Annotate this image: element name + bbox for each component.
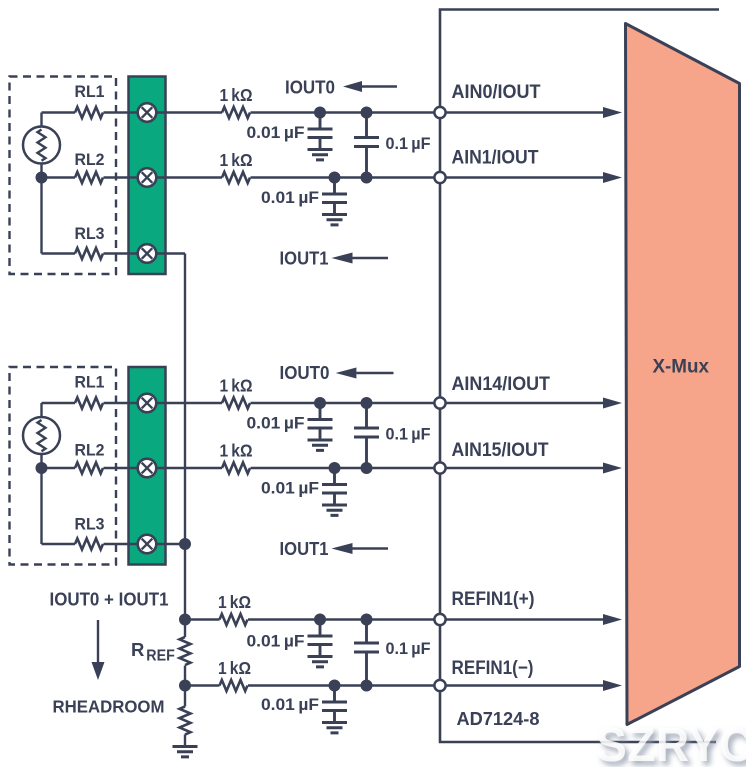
- svg-text:RL2: RL2: [75, 150, 105, 169]
- svg-text:IOUT0: IOUT0: [280, 363, 330, 383]
- svg-text:SZRYC: SZRYC: [596, 718, 746, 767]
- svg-text:AD7124-8: AD7124-8: [457, 708, 540, 729]
- svg-text:R: R: [131, 639, 144, 660]
- svg-text:1 kΩ: 1 kΩ: [220, 376, 253, 396]
- svg-text:REFIN1(+): REFIN1(+): [452, 589, 535, 610]
- svg-text:1 kΩ: 1 kΩ: [220, 441, 253, 461]
- svg-text:0.01 µF: 0.01 µF: [261, 188, 319, 207]
- svg-text:0.01 µF: 0.01 µF: [247, 632, 305, 651]
- svg-text:1 kΩ: 1 kΩ: [220, 150, 253, 170]
- svg-text:RL2: RL2: [75, 441, 105, 460]
- svg-text:RL3: RL3: [75, 515, 105, 534]
- svg-text:1 kΩ: 1 kΩ: [220, 85, 253, 105]
- svg-text:X-Mux: X-Mux: [652, 357, 709, 378]
- svg-text:0.01 µF: 0.01 µF: [261, 695, 319, 714]
- svg-text:1 kΩ: 1 kΩ: [218, 658, 251, 678]
- svg-text:RL1: RL1: [75, 373, 105, 392]
- svg-text:IOUT1: IOUT1: [280, 539, 329, 559]
- svg-text:RL1: RL1: [75, 82, 105, 101]
- svg-text:0.1 µF: 0.1 µF: [386, 425, 431, 444]
- svg-text:AIN1/IOUT: AIN1/IOUT: [452, 148, 539, 169]
- svg-text:RL3: RL3: [75, 224, 105, 243]
- svg-text:0.01 µF: 0.01 µF: [247, 123, 305, 142]
- svg-text:RHEADROOM: RHEADROOM: [53, 697, 165, 717]
- svg-text:AIN14/IOUT: AIN14/IOUT: [452, 374, 551, 395]
- svg-text:0.1 µF: 0.1 µF: [386, 134, 431, 153]
- svg-text:REFIN1(−): REFIN1(−): [452, 658, 534, 679]
- svg-text:AIN15/IOUT: AIN15/IOUT: [452, 440, 549, 461]
- svg-text:IOUT0 + IOUT1: IOUT0 + IOUT1: [50, 590, 169, 610]
- svg-text:0.1 µF: 0.1 µF: [386, 639, 431, 658]
- svg-text:REF: REF: [146, 648, 175, 665]
- svg-text:IOUT0: IOUT0: [285, 78, 335, 98]
- svg-text:IOUT1: IOUT1: [280, 249, 329, 269]
- svg-text:AIN0/IOUT: AIN0/IOUT: [452, 82, 541, 103]
- svg-text:0.01 µF: 0.01 µF: [261, 479, 319, 498]
- svg-text:1 kΩ: 1 kΩ: [218, 592, 251, 612]
- svg-text:0.01 µF: 0.01 µF: [247, 414, 305, 433]
